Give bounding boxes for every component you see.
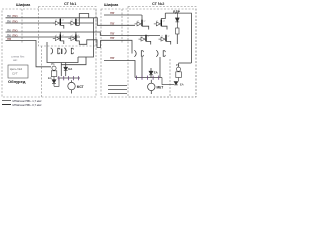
svg-text:Цепь №4: Цепь №4 [10, 67, 23, 71]
drop wire 2 [159, 57, 161, 78]
contact frame left [47, 42, 78, 63]
svg-text:ПВ': ПВ' [110, 22, 115, 26]
transistor VT6 [154, 13, 167, 29]
diode EA1 left [52, 78, 59, 86]
svg-text:ЕА: ЕА [48, 76, 52, 80]
feedback wire B [79, 14, 88, 26]
contact pair K1 [51, 48, 60, 54]
svg-text:МГШсхем ПВ1- 0,7 мм²: МГШсхем ПВ1- 0,7 мм² [13, 103, 42, 107]
dashed label column right [121, 9, 123, 44]
wire W2 [6, 22, 94, 24]
diode EA right [149, 68, 153, 78]
terminal strip left [58, 76, 81, 80]
wire W5 [6, 41, 52, 67]
dashed box CT2 [128, 7, 196, 98]
resistor RD1 [176, 28, 179, 34]
legend line 1 [2, 100, 11, 102]
legend line 2 [2, 104, 11, 106]
transistor VT3 [53, 32, 64, 44]
wire R5 to machine [104, 61, 135, 78]
svg-text:СТ №2: СТ №2 [152, 2, 164, 6]
diode EA left mid [64, 63, 68, 77]
svg-text:СТ №1: СТ №1 [64, 2, 76, 6]
svg-text:Шифма: Шифма [104, 3, 119, 7]
transistor VT7 [139, 35, 151, 45]
machine room branch wire [61, 57, 86, 65]
drop wires left contacts [60, 63, 62, 77]
diode VD1 [175, 13, 179, 28]
dashed label column left [21, 9, 23, 44]
transistor VT8 [159, 35, 171, 45]
wire EDR down [176, 34, 178, 44]
dashed machine room left [41, 46, 43, 97]
svg-text:ЕА: ЕА [68, 67, 72, 71]
transistor VT2 [68, 18, 79, 26]
svg-text:Шифма: Шифма [16, 3, 31, 7]
svg-text:МСТ: МСТ [77, 85, 84, 89]
svg-text:ПВ': ПВ' [110, 56, 115, 60]
dashed box CT1 [39, 7, 97, 47]
contact bar K12 [61, 49, 62, 54]
motor MCT lead [71, 80, 73, 82]
spare wires stub [108, 86, 127, 94]
svg-text:ПВ': ПВ' [110, 32, 115, 36]
motor MET lead [150, 80, 152, 83]
wire W1 [6, 18, 136, 26]
svg-text:ПВ': ПВ' [110, 36, 115, 40]
svg-text:МЕТ: МЕТ [157, 85, 164, 89]
svg-text:Р1: Р1 [51, 62, 55, 66]
contact pair K3 [134, 51, 143, 57]
svg-text:ЕА: ЕА [154, 71, 158, 75]
svg-text:ПВ': ПВ' [110, 11, 115, 15]
dashed divider right machine room [169, 59, 171, 97]
feedback wire C [165, 13, 191, 63]
wire W3 [6, 32, 161, 35]
dashed enclosure left bay [2, 9, 96, 97]
svg-text:ЕА: ЕА [180, 82, 184, 86]
wire labels left [7, 14, 18, 41]
drop wires right contacts [141, 57, 143, 78]
motor MCT circle [68, 82, 75, 89]
svg-text:Обнуред: Обнуред [8, 79, 26, 84]
wire P2 feed [179, 62, 192, 64]
transistor VT4 [68, 32, 100, 48]
diode EA2 [162, 78, 178, 85]
terminal strip right [135, 76, 162, 80]
transistor VT5 [135, 15, 149, 30]
device P1 left body [51, 66, 57, 79]
svg-text:Р1: Р1 [176, 63, 180, 67]
wire W4 [6, 36, 81, 38]
wire R4 [101, 40, 133, 53]
svg-text:СУТ: СУТ [12, 72, 18, 76]
motor MET circle [148, 83, 155, 90]
contact pair K4 [156, 51, 165, 57]
wire R1 [104, 14, 142, 16]
contact pair K2 [64, 48, 73, 54]
transistor VT1 [53, 18, 64, 29]
motor MCT lead bottom [71, 90, 73, 94]
motor MET lead bottom [150, 91, 152, 94]
svg-text:авт.: авт. [13, 58, 18, 62]
dashed enclosure right bay [101, 9, 196, 97]
drop wire to machine room [78, 18, 94, 57]
wire labels right [110, 11, 115, 60]
callout box [8, 65, 28, 78]
svg-text:МГШсхем ПВ1- 1,7 мм²: МГШсхем ПВ1- 1,7 мм² [13, 99, 42, 103]
svg-text:ЕДР: ЕДР [173, 10, 180, 14]
device P2 body [176, 63, 182, 81]
